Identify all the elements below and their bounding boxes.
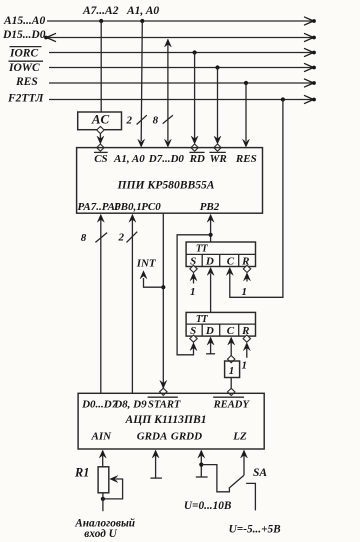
svg-text:R: R: [241, 325, 249, 337]
wire TT1 output to PPI PB2: [207, 214, 214, 242]
node junction IOWC: [215, 65, 219, 69]
svg-text:TT: TT: [196, 314, 209, 325]
wire A bus to AC: [100, 21, 102, 112]
node diamond TT2 R: [243, 335, 250, 342]
node junction PB2: [209, 233, 213, 237]
pin RD label: [189, 152, 205, 165]
pin WR label: [209, 152, 226, 165]
node diamond CS pin: [97, 144, 104, 151]
svg-text:D15...D0: D15...D0: [2, 29, 46, 41]
svg-text:ППИ КР580ВВ55А: ППИ КР580ВВ55А: [116, 178, 214, 191]
svg-text:R1: R1: [74, 465, 89, 479]
wire bus IOWC: [49, 63, 316, 71]
wire R1 bottom lead: [102, 493, 104, 511]
wire GRDA to ground: [152, 450, 159, 478]
node diamond TT1 S: [190, 265, 197, 272]
svg-text:8: 8: [153, 114, 159, 126]
node diamond WR pin: [214, 144, 221, 151]
svg-text:1: 1: [241, 286, 247, 298]
svg-text:8: 8: [81, 232, 87, 244]
svg-text:CS: CS: [94, 153, 107, 165]
svg-text:2: 2: [117, 232, 124, 244]
node junction R1 bottom: [101, 497, 105, 501]
svg-text:D0...D7: D0...D7: [81, 398, 118, 410]
pin CS label: [94, 152, 108, 165]
svg-text:A7...A2: A7...A2: [82, 5, 119, 17]
pin START label: [148, 397, 181, 410]
node junction RES: [244, 81, 248, 85]
node junction IORC: [193, 50, 197, 54]
wire node to TT2 S: [177, 235, 211, 355]
wire TT1 R tie high: [244, 273, 251, 282]
wire F2TTL to TT1 C: [226, 100, 283, 298]
svg-text:IORC: IORC: [9, 47, 38, 59]
svg-text:2: 2: [125, 114, 132, 126]
svg-text:1: 1: [229, 365, 235, 377]
svg-text:GRDA: GRDA: [137, 430, 168, 442]
ground GRDD: [196, 476, 208, 478]
node junction on A bus for AC: [99, 19, 103, 23]
svg-text:READY: READY: [213, 399, 251, 410]
buffer 1 READY: [225, 361, 240, 378]
svg-text:IOWC: IOWC: [8, 62, 40, 74]
wire slash PA: [95, 233, 107, 243]
node diamond READY pin: [228, 388, 235, 395]
svg-text:PB2: PB2: [200, 201, 220, 213]
wire buffer to TT2 C: [228, 337, 235, 356]
svg-text:RES: RES: [235, 153, 257, 165]
node diamond START pin: [160, 388, 167, 395]
svg-text:C: C: [227, 255, 235, 267]
wire TT1 S tie high: [190, 273, 197, 284]
flip-flop TT2: [186, 312, 255, 337]
node junction F2TTL: [281, 97, 285, 101]
svg-text:WR: WR: [210, 153, 227, 165]
wire bus D15...D0: [44, 33, 316, 41]
wire LZ to switch: [241, 450, 248, 475]
wire PC0 to ADC START: [160, 213, 167, 388]
svg-text:A1, A0: A1, A0: [113, 153, 145, 165]
node junction INT: [161, 285, 165, 289]
svg-text:START: START: [148, 399, 181, 410]
svg-text:D: D: [205, 255, 214, 267]
svg-text:U=0...10В: U=0...10В: [184, 500, 232, 512]
svg-text:SA: SA: [253, 467, 267, 479]
wire bus RES: [49, 79, 316, 87]
svg-text:D7...D0: D7...D0: [148, 153, 185, 165]
node diamond AC output: [97, 126, 104, 133]
wire bus F2TTL: [49, 95, 316, 103]
svg-text:GRDD: GRDD: [171, 430, 202, 442]
wire TT2 D to ground: [206, 337, 215, 354]
svg-text:A1, A0: A1, A0: [126, 5, 159, 17]
address selector AC: [78, 112, 122, 130]
wire A bus to PPI A1,A0: [138, 21, 145, 147]
switch SA blade: [230, 475, 244, 487]
op-amp U1 PPI KR580VV55A box: [77, 148, 263, 214]
svg-text:RES: RES: [15, 76, 38, 88]
wire RES bus to PPI RES: [243, 83, 250, 147]
svg-text:U=-5...+5В: U=-5...+5В: [229, 524, 282, 536]
ground GRDA: [150, 477, 162, 479]
wire TT2 R tie high: [243, 343, 250, 358]
node diamond RD pin: [191, 144, 198, 151]
wire slash 8: [163, 115, 173, 123]
wire AC to CS: [97, 134, 104, 144]
node junction GRDD branch: [199, 463, 203, 467]
node diamond TT1 R: [243, 265, 250, 272]
wire R1 to AIN: [99, 450, 106, 467]
ADC K1113PV1 box: [78, 393, 264, 449]
svg-text:AC: AC: [91, 112, 110, 127]
bus IOWC label: [8, 61, 43, 74]
wire slash PB: [127, 232, 138, 243]
wire TT2 output to TT1 D: [207, 267, 214, 312]
svg-text:A15...A0: A15...A0: [3, 15, 45, 27]
svg-text:1: 1: [241, 359, 247, 371]
svg-text:R: R: [241, 255, 249, 267]
svg-text:АЦП К1113ПВ1: АЦП К1113ПВ1: [125, 413, 207, 426]
wire ADC D8,D9 to PPI PB0,1: [129, 214, 136, 393]
pin READY label: [213, 397, 251, 410]
wire ADC D0..D7 to PPI PA: [97, 214, 104, 393]
node diamond buffer top: [228, 356, 235, 363]
wire IORC to RD: [191, 53, 198, 145]
svg-text:D8, D9: D8, D9: [113, 398, 147, 410]
svg-text:PB0,1: PB0,1: [114, 201, 142, 213]
bus IORC label: [9, 47, 42, 60]
svg-text:PC0: PC0: [141, 201, 161, 213]
svg-text:вход U: вход U: [84, 528, 117, 540]
svg-text:1: 1: [190, 286, 196, 298]
wire switch throw 1: [201, 465, 229, 492]
wire slash 2: [137, 115, 147, 124]
svg-text:F2ТТЛ: F2ТТЛ: [7, 92, 44, 104]
resistor R1: [74, 465, 109, 492]
wire GRDD to ground: [198, 450, 205, 477]
svg-text:RD: RD: [189, 153, 205, 165]
svg-text:LZ: LZ: [232, 430, 247, 442]
svg-text:D: D: [205, 325, 214, 337]
svg-text:INT: INT: [136, 258, 157, 270]
node junction on A bus for A1,A0: [140, 19, 144, 23]
wire buffer to ADC READY: [230, 378, 232, 389]
wire switch throw 2: [246, 483, 255, 510]
wire INT stub: [140, 271, 163, 287]
svg-text:AIN: AIN: [91, 430, 113, 442]
wire bus A15...A0: [47, 17, 316, 25]
svg-text:TT: TT: [196, 243, 209, 254]
wire bus IORC: [49, 48, 316, 56]
node diamond TT2 S: [190, 335, 197, 342]
wire R1 wiper: [103, 476, 122, 499]
flip-flop TT1: [186, 242, 255, 267]
svg-text:C: C: [227, 325, 235, 337]
wire IOWC to WR: [214, 68, 221, 145]
wire D bus to PPI D7...D0: [164, 39, 171, 147]
